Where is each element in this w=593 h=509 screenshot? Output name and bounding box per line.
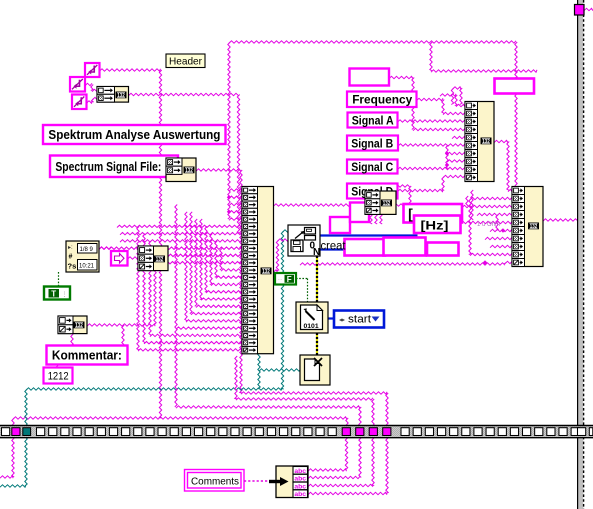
svg-text:132: 132 (156, 257, 164, 263)
svg-text:132: 132 (530, 224, 538, 230)
svg-text:132: 132 (75, 323, 83, 329)
svg-text:Signal C: Signal C (351, 160, 393, 174)
svg-text:⋮: ⋮ (62, 292, 68, 298)
svg-text:Spectrum Signal File:: Spectrum Signal File: (55, 160, 161, 174)
svg-text:132: 132 (185, 168, 193, 174)
svg-text:⋯: ⋯ (278, 277, 283, 283)
svg-text:[: [ (408, 205, 413, 221)
svg-text:132: 132 (262, 269, 270, 275)
svg-text:N: N (313, 247, 320, 258)
svg-text:abc: abc (294, 491, 306, 498)
svg-text:Spektrum Analyse Auswertung: Spektrum Analyse Auswertung (48, 128, 220, 142)
svg-text:start: start (348, 314, 371, 326)
svg-text:[Hz]: [Hz] (421, 219, 449, 233)
svg-text:F: F (287, 275, 292, 284)
svg-text:Header: Header (169, 56, 202, 68)
svg-text:10:21: 10:21 (79, 263, 95, 269)
svg-text:?s: ?s (68, 262, 77, 271)
svg-text:Kommentar:: Kommentar: (52, 349, 122, 363)
svg-text:Signal B: Signal B (351, 136, 393, 150)
svg-text:Frequency: Frequency (352, 93, 412, 107)
svg-text:0101: 0101 (304, 323, 319, 330)
svg-text:Comments: Comments (191, 476, 239, 488)
svg-text:T: T (51, 290, 56, 299)
svg-text:creat: creat (321, 241, 347, 253)
svg-text:1/8 9: 1/8 9 (80, 247, 94, 253)
svg-text:132: 132 (482, 139, 490, 145)
svg-text:1212: 1212 (48, 370, 69, 382)
svg-text:◂▸: ◂▸ (339, 318, 345, 324)
svg-text:#: # (69, 254, 73, 261)
svg-text:132: 132 (117, 93, 125, 99)
svg-text:132: 132 (383, 201, 391, 207)
svg-text:1 u Ohm: 1 u Ohm (477, 222, 500, 228)
svg-text:Signal A: Signal A (352, 113, 394, 127)
svg-text:▸:: ▸: (68, 245, 73, 251)
